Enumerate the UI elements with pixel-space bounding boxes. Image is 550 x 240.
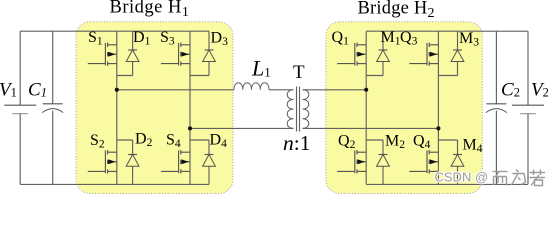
wire link S1/S2 node to L1	[117, 89, 234, 91]
wire top rail H1 side	[20, 30, 209, 32]
svg-text:n:1: n:1	[283, 131, 310, 155]
wire leg Q3/Q4	[437, 31, 439, 184]
wire D1 branch	[117, 31, 133, 75]
wire M3 branch	[438, 31, 457, 75]
wire M4 branch	[438, 140, 457, 184]
diode M3	[451, 50, 464, 62]
transistor S3	[161, 43, 190, 66]
wire S3/S4 node to transformer primary bottom	[190, 127, 294, 129]
svg-text:C2: C2	[501, 80, 520, 101]
wire transformer secondary bottom to Q3/Q4 node	[303, 127, 439, 129]
capacitor C2	[486, 31, 507, 184]
diode D4	[203, 155, 216, 167]
transistor Q4	[409, 150, 438, 174]
wire L1 to transformer primary	[269, 89, 294, 91]
wire leg S3/S4	[189, 31, 191, 184]
transistor S2	[88, 150, 117, 174]
diode D3	[203, 50, 216, 62]
wire leg S1/S2	[116, 31, 118, 184]
diode M1	[377, 50, 390, 62]
transistor Q1	[337, 43, 366, 66]
node S1/S2 midpoint	[115, 88, 119, 92]
wire M2 branch	[366, 140, 383, 184]
bridge H2 outline	[326, 22, 483, 194]
capacitor C1	[42, 31, 63, 184]
svg-text:Bridge H1: Bridge H1	[110, 0, 190, 20]
transistor S1	[88, 43, 117, 66]
node S3/S4 midpoint	[188, 126, 192, 130]
svg-text:C1: C1	[28, 80, 47, 101]
svg-text:CSDN @: CSDN @	[435, 169, 489, 184]
node Q3/Q4 midpoint	[436, 126, 440, 130]
inductor L1	[234, 83, 269, 90]
wire bottom rail H2 side	[366, 183, 528, 185]
diode M2	[377, 155, 390, 167]
wire D2 branch	[117, 140, 133, 184]
svg-text:V2: V2	[531, 80, 549, 101]
wire D4 branch	[190, 140, 209, 184]
wire M1 branch	[366, 31, 383, 75]
wire bottom rail H1 side	[20, 183, 209, 185]
svg-text:L1: L1	[251, 56, 271, 81]
bridge H1 outline	[76, 22, 233, 194]
transistor Q3	[409, 43, 438, 66]
transistor Q2	[337, 150, 366, 174]
svg-text:T: T	[293, 62, 305, 83]
svg-text:V1: V1	[0, 80, 17, 101]
wire transformer secondary to Q1/Q2 node	[303, 89, 367, 91]
diode M4	[451, 155, 464, 167]
wire leg Q1/Q2	[365, 31, 367, 184]
diode D2	[126, 155, 139, 167]
wire D3 branch	[190, 31, 209, 75]
transistor S4	[161, 150, 190, 174]
source V1	[4, 31, 36, 184]
diode D1	[126, 50, 139, 62]
source V2	[512, 31, 544, 184]
watermark	[435, 169, 546, 185]
wire top rail H2 side	[366, 30, 528, 32]
node Q1/Q2 midpoint	[364, 88, 368, 92]
transformer T	[287, 87, 309, 132]
svg-text:Bridge H2: Bridge H2	[358, 0, 435, 21]
